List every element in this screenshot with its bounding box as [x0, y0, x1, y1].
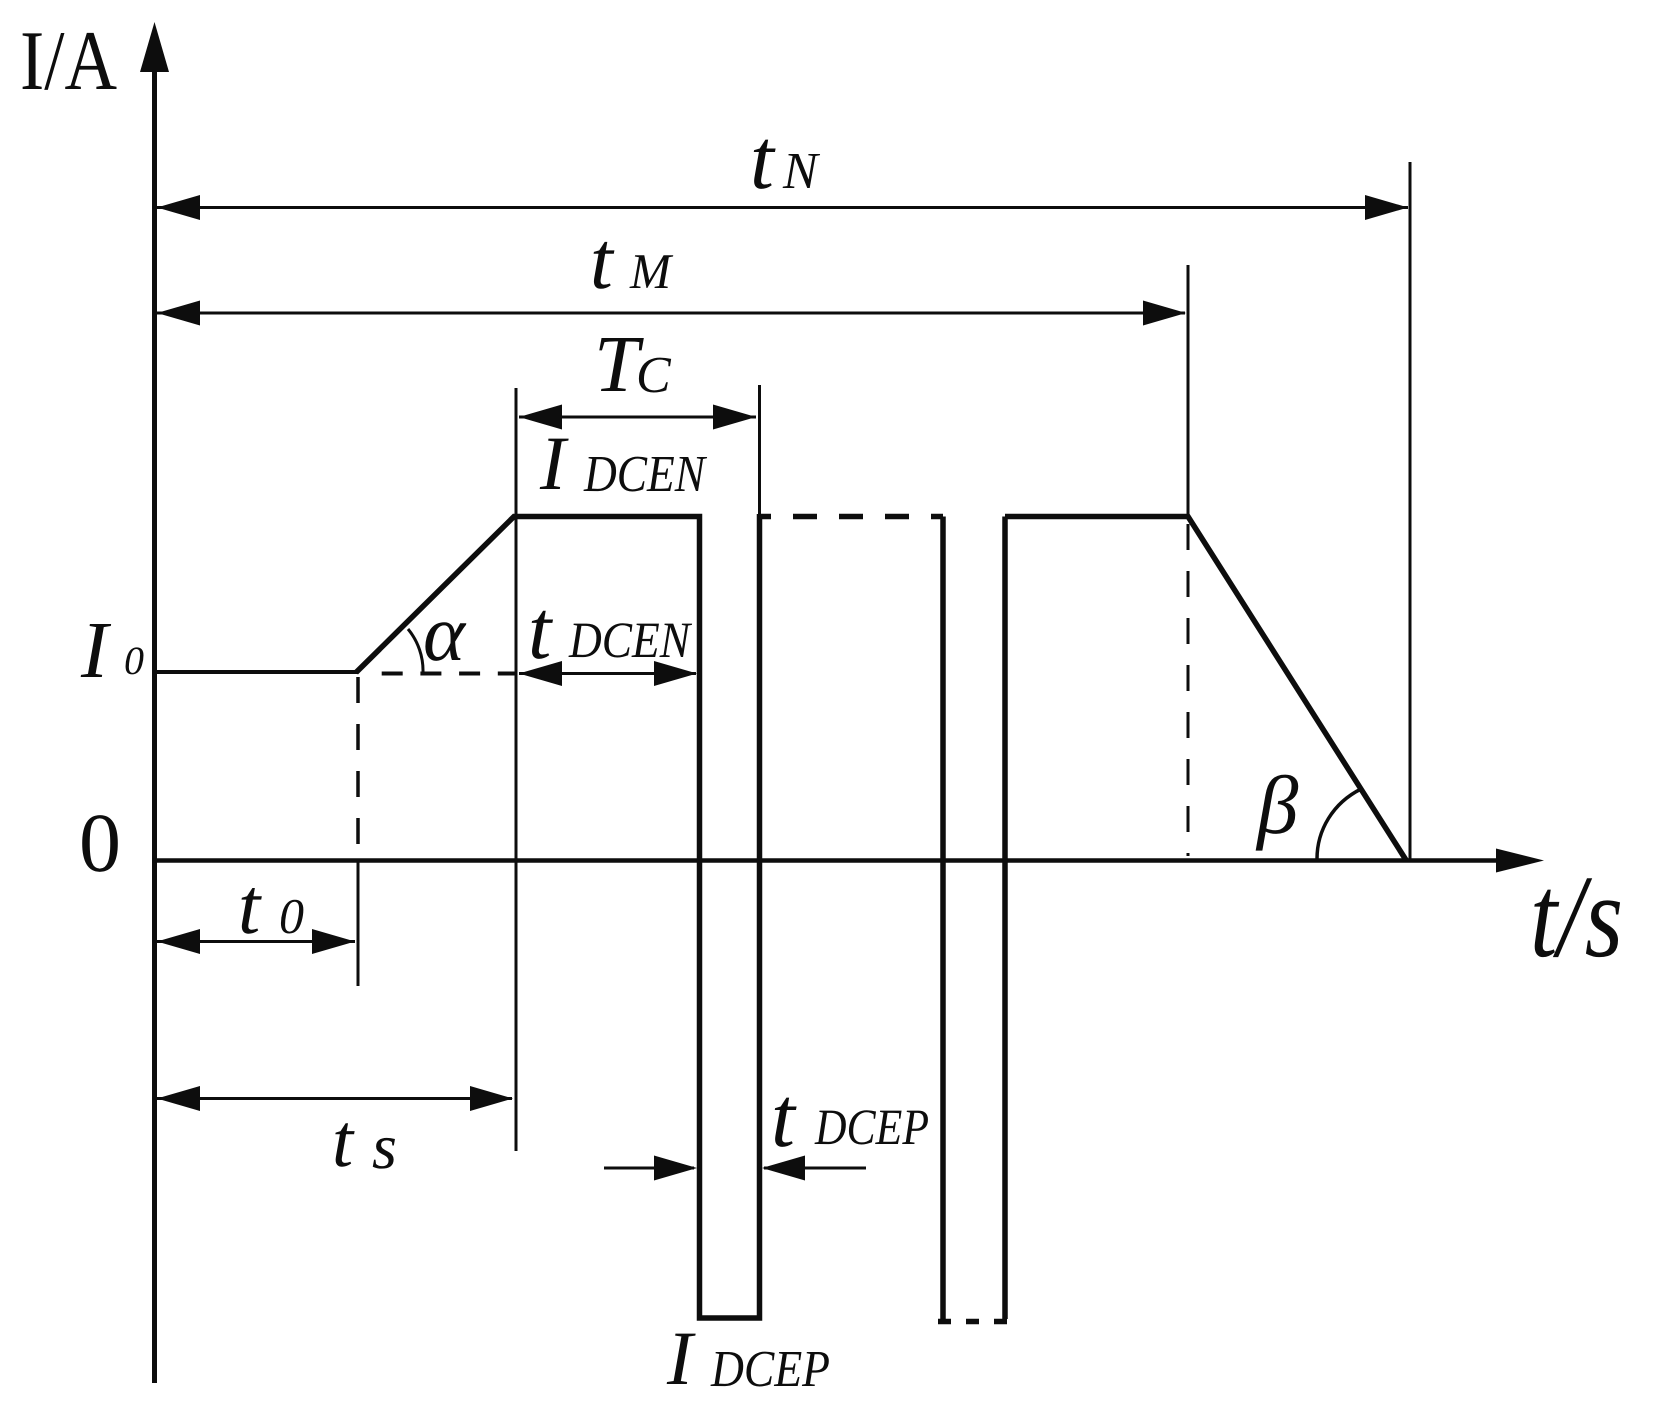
t_DCEP left dimension arrow: [604, 1167, 694, 1170]
waveform: ramp up, first DCEN pulse top, fall, DCEP bottom, rise: [356, 514, 760, 1318]
svg-text:t: t: [528, 584, 554, 677]
x-axis arrowhead: [1496, 849, 1544, 873]
ts / Tc-left marker line: [515, 388, 518, 1151]
svg-text:DCEN: DCEN: [583, 446, 708, 503]
svg-text:s: s: [372, 1111, 397, 1182]
svg-text:t: t: [771, 1069, 797, 1165]
beta angle arc: [1317, 789, 1361, 859]
svg-text:I/A: I/A: [20, 14, 117, 108]
y-axis arrowhead: [140, 22, 169, 72]
svg-text:I: I: [80, 605, 112, 695]
Tc dimension arrow: [519, 416, 756, 419]
svg-text:N: N: [782, 143, 821, 200]
t_N dimension arrow: [157, 206, 1408, 209]
waveform second DCEN top and ramp down: [1005, 517, 1406, 861]
dashed vertical from ramp start to axis: [356, 677, 360, 858]
svg-text:t: t: [238, 863, 262, 951]
t0 marker line below axis: [357, 862, 360, 986]
svg-text:β: β: [1255, 759, 1299, 851]
dashed horizontal alpha reference at I0 level: [364, 672, 516, 676]
waveform second DCEP pulse falling edge: [940, 517, 946, 1320]
t_DCEP right dimension arrow: [764, 1167, 866, 1170]
t_N right marker line: [1409, 162, 1412, 860]
alpha angle arc: [408, 629, 423, 673]
svg-text:0: 0: [124, 638, 144, 683]
t_M dimension arrow: [157, 312, 1185, 315]
t0 dimension arrow: [157, 940, 355, 943]
svg-text:t: t: [590, 215, 615, 306]
svg-text:C: C: [636, 347, 672, 404]
svg-text:α: α: [423, 590, 467, 678]
svg-text:0: 0: [279, 888, 304, 944]
waveform dashed continuation at I_DCEN level: [760, 514, 943, 520]
t_M right marker line: [1187, 265, 1190, 516]
t_DCEN dimension arrow: [519, 672, 696, 675]
x-axis t/s: [152, 858, 1500, 863]
Tc right marker line: [758, 385, 761, 514]
waveform second DCEP pulse dashed bottom: [938, 1319, 1012, 1325]
waveform second DCEP pulse rising edge: [1002, 517, 1008, 1320]
svg-text:DCEP: DCEP: [814, 1100, 929, 1156]
svg-text:t: t: [750, 111, 776, 207]
svg-text:I: I: [666, 1315, 696, 1401]
svg-text:M: M: [629, 243, 673, 299]
svg-text:0: 0: [79, 797, 121, 890]
svg-text:t/s: t/s: [1530, 851, 1623, 982]
dashed vertical under ramp-down start: [1187, 524, 1190, 856]
svg-text:DCEP: DCEP: [710, 1341, 830, 1398]
svg-text:DCEN: DCEN: [568, 613, 693, 669]
waveform: I0 level segment: [156, 670, 358, 674]
y-axis I/A: [152, 60, 157, 1383]
svg-text:t: t: [332, 1099, 355, 1183]
ts dimension arrow: [157, 1097, 512, 1100]
svg-text:I: I: [539, 420, 569, 506]
